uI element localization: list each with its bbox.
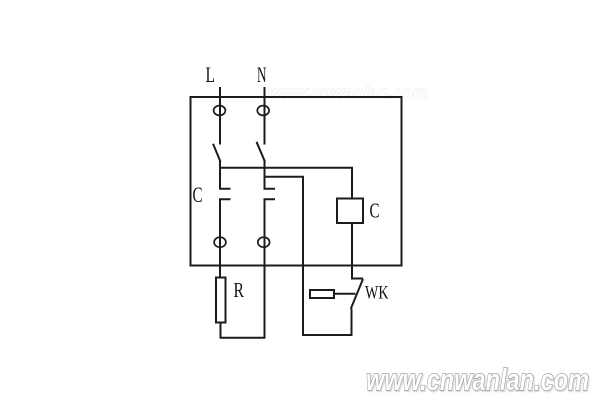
svg-text:C: C [193,182,203,207]
contact C pole 2 blade [257,142,266,162]
coil C (contactor coil) [337,199,363,224]
thermostat WK blade [351,279,363,309]
terminal L top [214,106,226,116]
svg-text:L: L [206,62,216,87]
wire L lead (top) [219,87,221,145]
terminal N bottom [258,237,270,247]
contact C pole 1 upper arm [220,161,231,189]
svg-text:N: N [257,62,267,87]
wire N lead (top) [264,87,266,145]
wire from pole 2 to thermostat branch [264,177,304,335]
contact C pole 2 lower arm [265,199,276,337]
contact C pole 2 upper arm [265,161,276,189]
wire coil bottom [352,223,363,279]
link sensor to blade [334,293,356,295]
terminal N top [257,106,269,116]
resistor R body [216,278,226,323]
thermostat WK sensor element [310,290,334,298]
wire from pole 1 to coil (node A) [219,168,352,199]
wire resistor bottom [221,323,266,338]
svg-text:WK: WK [365,283,389,304]
terminal L bottom [214,237,226,247]
wire blade to bottom [351,309,353,336]
contact C pole 1 lower arm [220,199,231,278]
wire bottom of WK branch [302,334,353,336]
enclosure box (appliance outline) [191,97,402,266]
svg-text:www.cnwanlan.com: www.cnwanlan.com [366,362,589,397]
svg-text:R: R [234,278,245,302]
svg-text:www.cnwanlan.com: www.cnwanlan.com [268,83,428,102]
contact C pole 1 blade [213,144,221,162]
svg-text:C: C [370,199,380,223]
